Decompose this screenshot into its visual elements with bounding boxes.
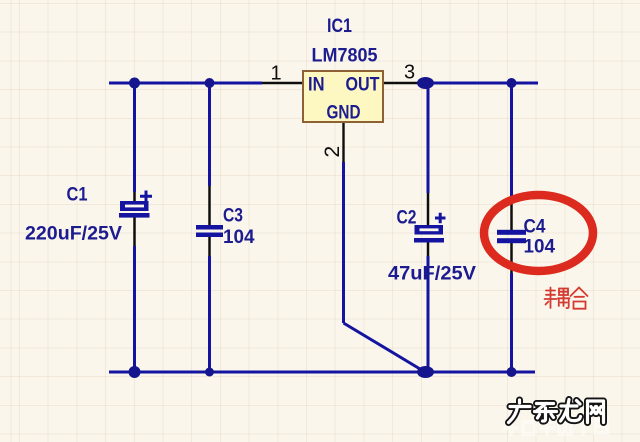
svg-text:3: 3 — [404, 62, 415, 84]
capacitor C3 plates — [196, 225, 223, 237]
svg-text:GND: GND — [327, 103, 361, 124]
capacitor C2 (polarized) plates — [414, 225, 444, 243]
svg-text:C1: C1 — [67, 185, 88, 206]
watermark 广东龙网 glyph 广 — [509, 400, 531, 423]
watermark faint ghost text — [505, 418, 607, 434]
svg-text:OUT: OUT — [346, 75, 380, 96]
op-amp U1 regulator body LM7805 — [303, 71, 383, 122]
watermark 广东龙网 glyph 龙 — [561, 400, 581, 422]
junction node bottom rail / C4 — [507, 367, 517, 377]
wire bottom ground rail — [109, 371, 535, 374]
pin of C2 top — [427, 193, 430, 226]
pin of C4 bottom — [510, 243, 513, 273]
junction node bottom rail / GND+C2 (double dot) — [417, 366, 434, 378]
wire C3 branch vertical lower — [208, 256, 211, 372]
pin of C3 top — [208, 186, 211, 226]
svg-text:47uF/25V: 47uF/25V — [388, 264, 476, 285]
annotation red ellipse around C4 — [484, 195, 593, 271]
svg-text:LM7805: LM7805 — [312, 45, 378, 67]
svg-text:2: 2 — [321, 146, 344, 158]
capacitor C1 (polarized) plates — [119, 201, 150, 218]
wire C2 branch vertical lower — [427, 256, 430, 372]
pin of C1 bottom — [133, 217, 136, 246]
wire top rail right segment — [421, 82, 538, 85]
svg-text:C4: C4 — [524, 217, 546, 238]
svg-text:IN: IN — [308, 75, 325, 96]
watermark 广东龙网 glyph 东 — [535, 404, 557, 422]
svg-text:220uF/25V: 220uF/25V — [25, 224, 122, 245]
pin of C1 top — [133, 192, 136, 202]
junction node top rail / C2 (double dot) — [417, 77, 434, 89]
svg-text:104: 104 — [524, 237, 556, 258]
annotation text 耦合 (coupling) glyph 合 — [571, 288, 588, 309]
pin of C3 bottom — [208, 237, 211, 256]
pin 3 of U1 (OUT) — [383, 82, 421, 84]
wire C3 branch vertical upper — [208, 83, 211, 186]
junction node bottom rail / C1 — [129, 366, 141, 378]
svg-text:C3: C3 — [223, 206, 243, 227]
junction node top rail / C3 — [205, 78, 215, 88]
svg-text:1: 1 — [271, 63, 282, 85]
polarity plus of C1 — [140, 191, 152, 203]
svg-text:IC1: IC1 — [327, 16, 352, 37]
wire C2 branch vertical upper — [427, 83, 430, 193]
pin 2 of U1 (GND) — [342, 122, 344, 162]
capacitor C4 plates — [497, 230, 526, 243]
polarity plus of C2 — [435, 213, 446, 223]
junction node top rail / C1 — [129, 78, 140, 89]
svg-text:104: 104 — [223, 227, 255, 248]
svg-text:C2: C2 — [397, 208, 417, 229]
annotation text 耦合 (coupling) glyph 耦 — [545, 288, 570, 309]
junction node top rail / C4 — [507, 78, 517, 88]
wire C4 branch vertical lower — [510, 273, 513, 372]
wire C1 branch vertical upper — [133, 83, 136, 192]
pin of C2 bottom — [427, 242, 430, 256]
watermark 广东龙网 glyph 网 — [588, 401, 604, 423]
junction node bottom rail / C3 — [205, 368, 214, 377]
wire GND vertical segment — [342, 162, 345, 323]
wire GND diagonal segment — [344, 323, 426, 372]
wire C4 branch vertical upper — [510, 83, 513, 199]
wire top rail left segment — [109, 82, 262, 85]
pin of C4 top — [510, 199, 513, 230]
wire C1 branch vertical lower — [133, 246, 136, 372]
pin 1 of U1 (IN) — [262, 82, 303, 84]
